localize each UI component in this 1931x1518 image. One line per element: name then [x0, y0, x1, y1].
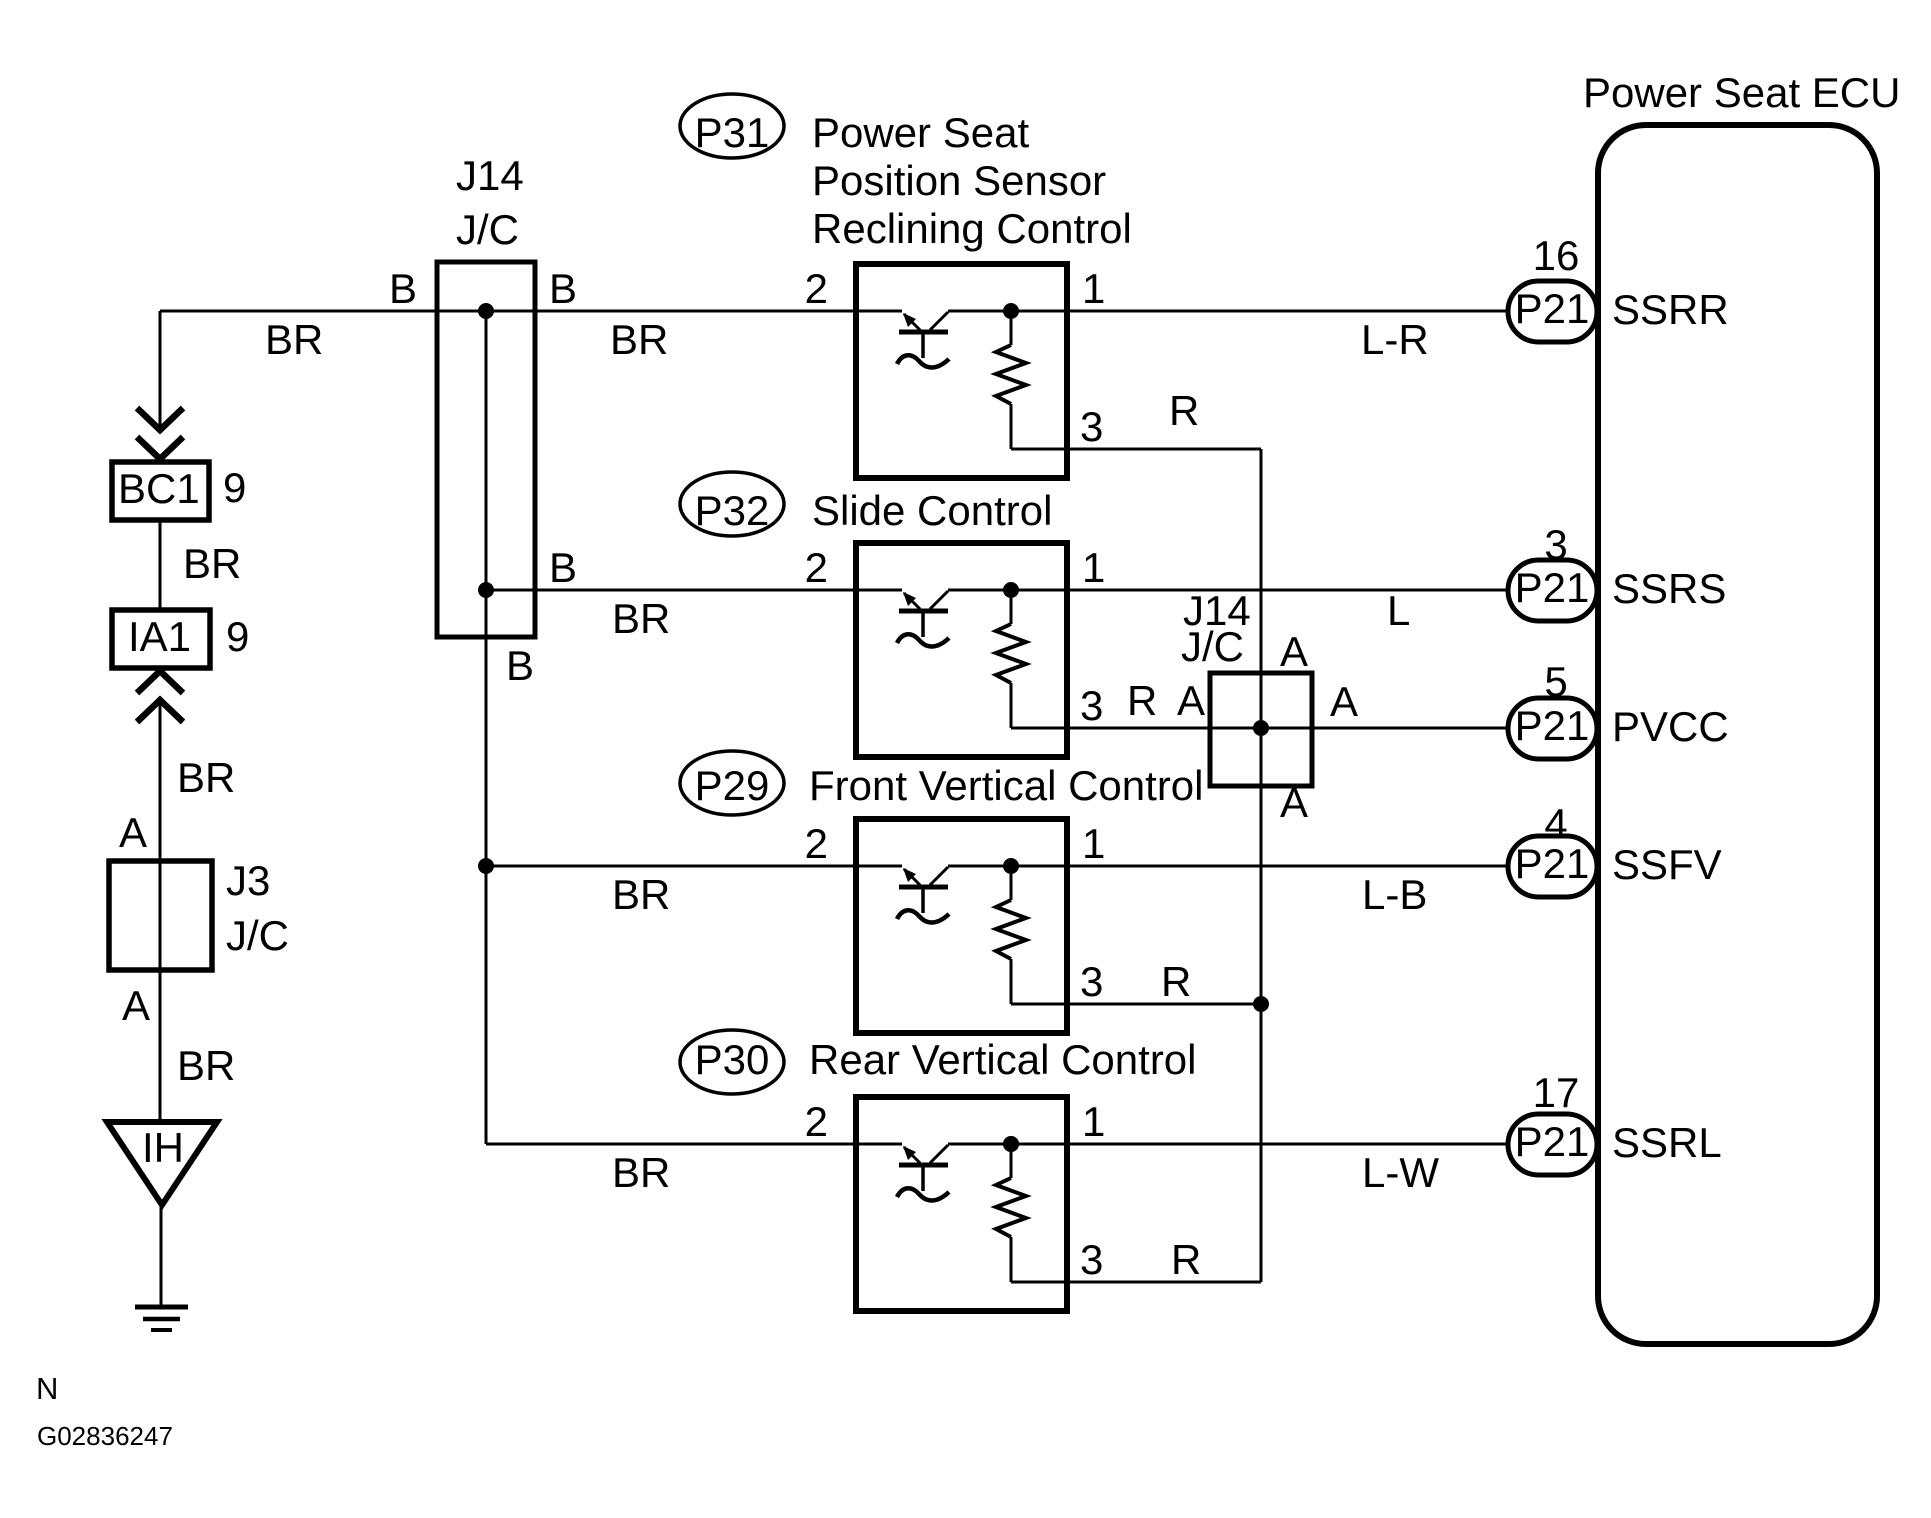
svg-text:A: A — [1330, 678, 1358, 725]
svg-text:16: 16 — [1533, 232, 1580, 279]
svg-text:1: 1 — [1082, 1098, 1105, 1145]
svg-text:J/C: J/C — [456, 206, 519, 253]
svg-text:G02836247: G02836247 — [37, 1421, 173, 1451]
svg-text:1: 1 — [1082, 265, 1105, 312]
svg-text:BR: BR — [612, 871, 670, 918]
svg-text:J/C: J/C — [226, 912, 289, 959]
svg-text:SSRR: SSRR — [1612, 286, 1729, 333]
svg-text:A: A — [1177, 677, 1205, 724]
svg-text:B: B — [506, 642, 534, 689]
svg-text:R: R — [1169, 387, 1199, 434]
svg-text:17: 17 — [1533, 1069, 1580, 1116]
svg-text:L: L — [1387, 587, 1410, 634]
svg-text:Rear Vertical Control: Rear Vertical Control — [809, 1036, 1197, 1083]
svg-text:P21: P21 — [1515, 702, 1590, 749]
svg-text:P21: P21 — [1515, 564, 1590, 611]
svg-text:BR: BR — [183, 540, 241, 587]
svg-text:BR: BR — [612, 1149, 670, 1196]
svg-text:L-W: L-W — [1362, 1149, 1439, 1196]
svg-text:Power Seat: Power Seat — [812, 109, 1029, 156]
svg-text:BC1: BC1 — [118, 465, 200, 512]
svg-text:SSFV: SSFV — [1612, 841, 1722, 888]
svg-text:9: 9 — [226, 613, 249, 660]
svg-text:J3: J3 — [226, 857, 270, 904]
svg-text:P21: P21 — [1515, 1118, 1590, 1165]
svg-text:L-R: L-R — [1361, 316, 1429, 363]
svg-text:P21: P21 — [1515, 285, 1590, 332]
svg-text:P31: P31 — [695, 109, 770, 156]
svg-text:3: 3 — [1080, 403, 1103, 450]
svg-text:A: A — [119, 809, 147, 856]
svg-text:BR: BR — [177, 1042, 235, 1089]
svg-text:Slide Control: Slide Control — [812, 487, 1052, 534]
svg-text:SSRL: SSRL — [1612, 1119, 1722, 1166]
svg-text:Position Sensor: Position Sensor — [812, 157, 1106, 204]
svg-text:P30: P30 — [695, 1036, 770, 1083]
svg-text:2: 2 — [805, 544, 828, 591]
svg-text:3: 3 — [1080, 958, 1103, 1005]
svg-text:L-B: L-B — [1362, 871, 1427, 918]
svg-text:BR: BR — [265, 316, 323, 363]
svg-text:Front Vertical Control: Front Vertical Control — [809, 762, 1204, 809]
svg-text:4: 4 — [1544, 800, 1567, 847]
svg-text:5: 5 — [1544, 658, 1567, 705]
svg-text:IH: IH — [142, 1124, 184, 1171]
svg-text:3: 3 — [1080, 682, 1103, 729]
svg-text:2: 2 — [805, 265, 828, 312]
svg-text:BR: BR — [610, 316, 668, 363]
svg-text:N: N — [36, 1371, 58, 1406]
svg-text:P32: P32 — [695, 487, 770, 534]
svg-text:A: A — [122, 982, 150, 1029]
svg-text:A: A — [1280, 628, 1308, 675]
svg-text:R: R — [1161, 958, 1191, 1005]
svg-text:3: 3 — [1080, 1236, 1103, 1283]
svg-text:J14: J14 — [456, 152, 524, 199]
svg-text:B: B — [549, 265, 577, 312]
svg-text:Reclining Control: Reclining Control — [812, 205, 1132, 252]
svg-text:BR: BR — [612, 595, 670, 642]
svg-text:IA1: IA1 — [128, 613, 191, 660]
svg-text:1: 1 — [1082, 820, 1105, 867]
svg-text:1: 1 — [1082, 544, 1105, 591]
svg-text:PVCC: PVCC — [1612, 703, 1729, 750]
svg-text:B: B — [549, 544, 577, 591]
svg-text:3: 3 — [1544, 521, 1567, 568]
svg-text:2: 2 — [805, 1098, 828, 1145]
svg-text:J/C: J/C — [1181, 623, 1244, 670]
svg-text:B: B — [389, 265, 417, 312]
svg-text:BR: BR — [177, 754, 235, 801]
svg-text:P29: P29 — [695, 762, 770, 809]
svg-text:SSRS: SSRS — [1612, 565, 1726, 612]
svg-text:2: 2 — [805, 820, 828, 867]
svg-text:R: R — [1127, 677, 1157, 724]
svg-text:P21: P21 — [1515, 840, 1590, 887]
svg-text:A: A — [1280, 779, 1308, 826]
svg-text:9: 9 — [223, 464, 246, 511]
svg-text:Power Seat ECU: Power Seat ECU — [1583, 69, 1900, 116]
svg-text:R: R — [1171, 1236, 1201, 1283]
